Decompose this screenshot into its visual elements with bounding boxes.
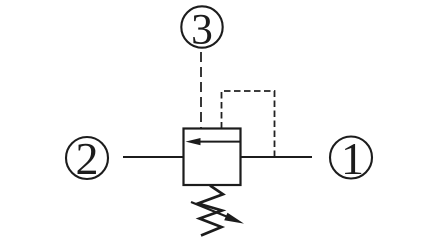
wire: port 2 line	[123, 156, 184, 158]
adjustment arrow across spring	[191, 202, 244, 224]
spring (return spring, zigzag)	[198, 186, 223, 236]
svg-text:2: 2	[76, 133, 99, 184]
svg-text:3: 3	[191, 6, 213, 54]
flow arrow inside valve (points left)	[186, 138, 241, 145]
pilot wire (dashed) from port 3 to valve top	[200, 52, 202, 129]
drain wire (dashed) from valve top to port-1 line	[222, 91, 275, 157]
wire: port 1 line	[240, 156, 312, 158]
port circle 3	[181, 6, 222, 54]
svg-text:1: 1	[341, 133, 364, 184]
port circle 2	[66, 133, 108, 184]
port circle 1	[330, 133, 372, 184]
valve body V1	[184, 129, 241, 186]
